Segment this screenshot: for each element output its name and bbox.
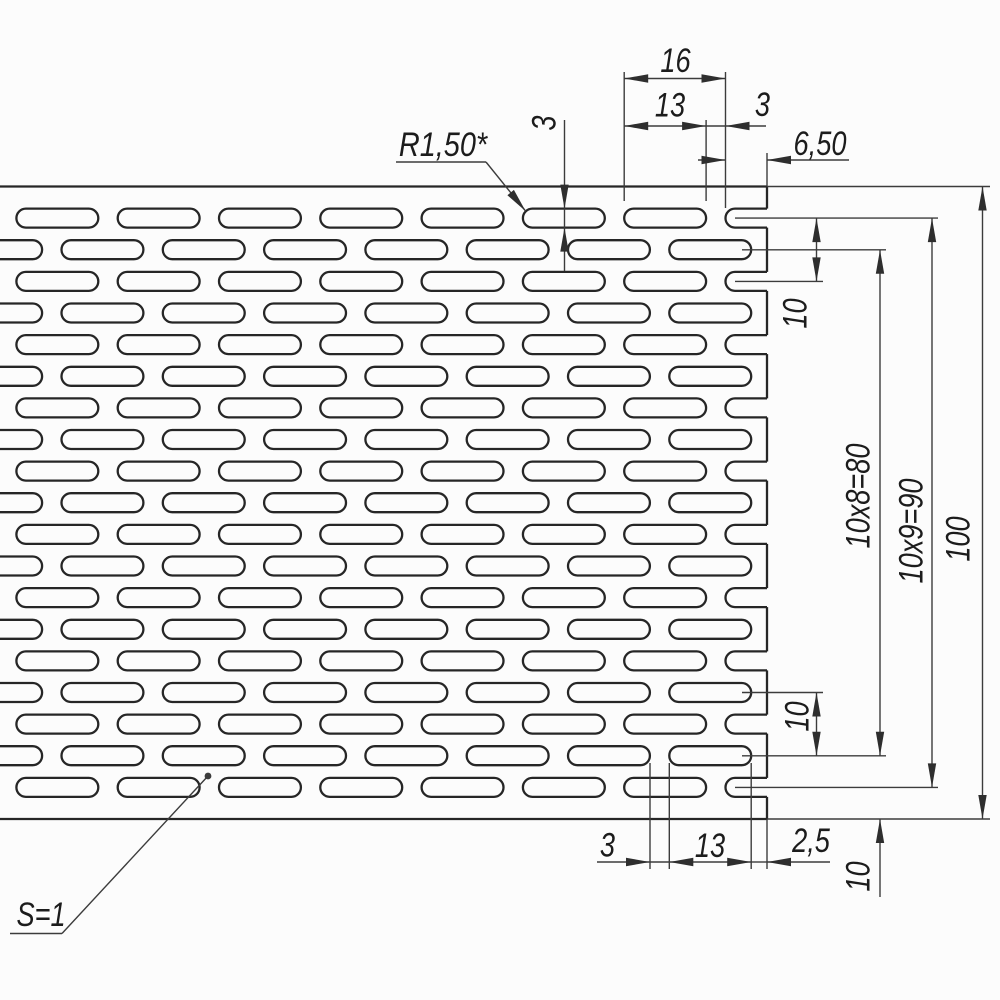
plate top edge bbox=[0, 185, 767, 187]
svg-text:13: 13 bbox=[655, 86, 685, 125]
plate bottom edge bbox=[0, 818, 767, 820]
extension line row3 notch center bbox=[735, 280, 823, 282]
extension line top edge right bbox=[767, 186, 990, 188]
slot row 9 bbox=[16, 462, 767, 481]
svg-text:6,50: 6,50 bbox=[794, 124, 847, 163]
extension line slot right end bbox=[705, 120, 707, 201]
svg-text:R1,50*: R1,50* bbox=[399, 125, 489, 164]
dimension 13 (slot length) bbox=[624, 86, 706, 131]
dimension 3 (slot height) bbox=[525, 115, 569, 271]
slot row 12 bbox=[0, 557, 751, 576]
extension line slot left end bbox=[623, 72, 625, 201]
slot row 10 bbox=[0, 493, 751, 512]
svg-text:10: 10 bbox=[778, 701, 817, 731]
extension line next slot start bbox=[725, 72, 727, 208]
extension line row16 slot center bbox=[742, 692, 823, 694]
extension line bottom slot gap left bbox=[649, 763, 651, 869]
svg-text:10x8=80: 10x8=80 bbox=[839, 443, 878, 548]
dimension 10 (bottom margin) bbox=[839, 819, 885, 897]
svg-text:3: 3 bbox=[525, 115, 564, 130]
dimension 10x9=90 bbox=[892, 218, 937, 787]
slot row 1 bbox=[16, 209, 767, 228]
dimension 10x8=80 bbox=[839, 250, 885, 756]
slot row 18 bbox=[0, 746, 751, 765]
dimension 3 (slot gap) bbox=[706, 85, 770, 130]
slot row 13 bbox=[16, 588, 767, 607]
slot row 2 bbox=[0, 240, 751, 259]
svg-text:3: 3 bbox=[755, 85, 770, 124]
extension line row18 slot center bbox=[742, 755, 886, 757]
leader R1,50* (corner radius) bbox=[396, 125, 526, 212]
svg-text:10: 10 bbox=[776, 298, 815, 328]
slot row 11 bbox=[16, 525, 767, 544]
svg-text:S=1: S=1 bbox=[16, 895, 65, 934]
svg-text:100: 100 bbox=[939, 516, 978, 561]
extension line right edge bottom bbox=[766, 819, 768, 869]
slot row 15 bbox=[16, 651, 767, 670]
slot row 8 bbox=[0, 430, 751, 449]
plate right edge (castellated) bbox=[766, 187, 768, 820]
svg-text:16: 16 bbox=[660, 41, 691, 80]
extension line bottom slot end bbox=[750, 763, 752, 869]
extension line bottom edge right bbox=[767, 818, 990, 820]
extension line row19 notch center bbox=[735, 786, 938, 788]
dimension 100 (overall height) bbox=[939, 187, 987, 820]
dimension 16 (pitch) bbox=[624, 41, 725, 83]
leader S=1 (sheet thickness) bbox=[10, 773, 211, 934]
extension line right edge top bbox=[766, 153, 768, 187]
extension line row2 slot center bbox=[742, 249, 886, 251]
svg-text:13: 13 bbox=[695, 826, 725, 865]
extension line row1 notch center bbox=[735, 217, 938, 219]
svg-text:10x9=90: 10x9=90 bbox=[892, 478, 931, 583]
slot row 16 bbox=[0, 683, 751, 702]
svg-text:3: 3 bbox=[600, 826, 615, 865]
extension line bottom slot start bbox=[668, 763, 670, 869]
slot row 17 bbox=[16, 715, 767, 734]
dimension 10 (mid right rows 16-18) bbox=[778, 693, 821, 756]
slot row 4 bbox=[0, 304, 751, 323]
slot row 6 bbox=[0, 367, 751, 386]
slot row 7 bbox=[16, 398, 767, 417]
dimension 6,50 (notch depth) bbox=[698, 124, 849, 164]
dimension 3 (bottom slot gap) bbox=[597, 826, 669, 867]
slot row 3 bbox=[16, 272, 767, 291]
slot row 14 bbox=[0, 620, 751, 639]
svg-text:2,5: 2,5 bbox=[791, 821, 830, 860]
svg-text:10: 10 bbox=[839, 861, 878, 891]
dimension 13 (bottom slot length) bbox=[669, 826, 751, 866]
slot row 19 bbox=[16, 778, 767, 797]
dimension 2,5 (edge margin) bbox=[751, 821, 830, 866]
slot row 5 bbox=[16, 335, 767, 354]
dimension 10 (top right rows 1-3) bbox=[776, 218, 821, 329]
